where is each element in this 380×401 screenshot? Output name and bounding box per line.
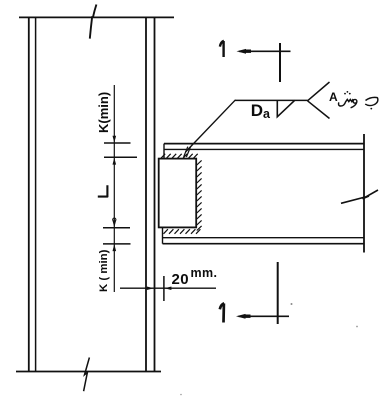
20mm left arrow (147, 287, 154, 291)
section cut 1 bottom: arrow tail blob (245, 315, 251, 318)
20mm dimension line (120, 287, 216, 289)
dimension chain line (113, 85, 115, 292)
beam bottom flange lower line (163, 243, 365, 245)
column top break mark (90, 5, 97, 39)
beam top flange upper line (164, 143, 364, 145)
weld marks at leader tip (184, 147, 191, 157)
end plate top hatching (161, 154, 198, 158)
arrow down to tick1 (113, 136, 117, 143)
Arabic word joosh: jeem bowl (365, 98, 378, 106)
beam bottom flange upper line (163, 237, 365, 239)
beam top flange left end edge (163, 144, 165, 159)
weld tail fork (308, 82, 330, 119)
tick at plate top (104, 156, 137, 158)
end plate bottom hatching (164, 229, 201, 234)
Arabic word joosh: jeem bar (366, 97, 378, 100)
column bottom break mark (84, 358, 90, 392)
beam bottom flange left end edge (162, 228, 164, 244)
end plate (159, 159, 197, 228)
beam break mark (341, 190, 378, 203)
tick at plate bottom (103, 227, 130, 229)
section cut 1 top: digit 1 (220, 41, 224, 57)
scan speck near bottom center (180, 394, 182, 396)
column right flange inner line (145, 17, 147, 371)
beam top flange lower line (164, 148, 364, 150)
arrow up to tick2 (113, 158, 117, 165)
svg-text:K ( min): K ( min) (98, 249, 110, 292)
section cut 1 top: arrow tail blob (246, 50, 252, 53)
svg-text:a: a (263, 107, 271, 121)
scan speck bottom right (356, 326, 358, 328)
end plate right edge hatching (197, 160, 202, 230)
weld reference line (235, 99, 308, 101)
svg-text:K(min): K(min) (96, 92, 111, 133)
Arabic word joosh: sheen base (339, 99, 354, 106)
section cut 1 bottom: trace line (277, 262, 279, 324)
column right flange outer (face) line (154, 17, 156, 371)
arrow up to tick4 (113, 244, 117, 251)
fillet weld triangle (277, 100, 294, 116)
beam right end line (363, 134, 365, 253)
column top edge line (19, 16, 174, 18)
section cut 1 top: arrowhead (237, 49, 247, 54)
Arabic word joosh: jeem dot (370, 108, 372, 110)
column left flange outer line (28, 17, 30, 371)
section cut 1 top: trace line (279, 43, 281, 82)
column bottom edge line (16, 371, 161, 373)
tick at beam bottom flange bottom (103, 243, 131, 245)
arrow down to tick3 (113, 221, 117, 228)
section cut 1 bottom: sight arrow line (239, 315, 290, 317)
Arabic word joosh: waw tail (351, 102, 357, 107)
svg-text:20: 20 (172, 271, 190, 288)
20mm extension line (163, 276, 165, 301)
section cut 1 top: sight arrow line (239, 50, 291, 52)
section cut 1 bottom: arrowhead (236, 314, 246, 319)
scan speck right of bottom cut symbol (291, 303, 293, 305)
column left flange inner line (35, 17, 37, 371)
svg-text:mm.: mm. (191, 266, 218, 280)
section cut 1 bottom: digit 1 (220, 303, 224, 322)
svg-text:A: A (329, 90, 338, 104)
Arabic word joosh: sheen dots (344, 93, 346, 95)
Arabic word joosh: waw head (353, 99, 357, 103)
20mm right arrow (164, 287, 171, 291)
label L (98, 185, 108, 197)
tick at beam top flange top (104, 142, 131, 144)
weld leader line (186, 100, 236, 152)
small circle on dimension line (113, 218, 116, 221)
svg-text:D: D (251, 101, 263, 120)
